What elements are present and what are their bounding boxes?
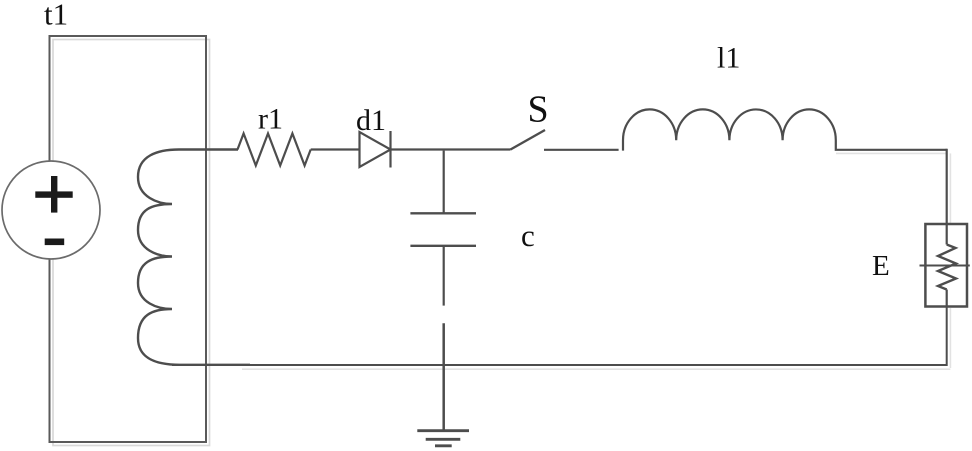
diode d1 <box>360 132 391 167</box>
ground bar 2 <box>426 438 461 441</box>
svg-text:t1: t1 <box>44 0 68 32</box>
capacitor c top plate <box>410 212 476 214</box>
wire cap to ground <box>442 323 445 431</box>
wire shadow (bottom wire) <box>242 368 950 370</box>
capacitor c bottom lead <box>443 246 445 306</box>
voltage source circle <box>2 161 100 259</box>
switch S blade <box>511 130 546 150</box>
resistor r1 <box>238 134 311 166</box>
voltage source minus sign <box>45 239 64 246</box>
wire shadow (right vertical upper) <box>949 153 951 224</box>
capacitor c top lead <box>443 151 445 213</box>
wire right vertical upper <box>946 149 948 225</box>
voltage source plus sign <box>35 191 72 197</box>
ground bar 1 <box>417 429 469 432</box>
load E resistor zigzag <box>938 245 956 290</box>
svg-text:c: c <box>521 218 535 253</box>
transformer t1 box shadow <box>53 40 210 446</box>
transformer t1 box <box>50 36 207 442</box>
load E inner lead top <box>946 224 948 245</box>
wire shadow (right vertical lower) <box>949 308 951 368</box>
svg-text:E: E <box>872 250 890 282</box>
load E middle crossing line <box>920 265 970 267</box>
svg-text:l1: l1 <box>717 42 740 75</box>
capacitor c bottom plate <box>410 245 476 247</box>
transformer secondary winding <box>138 150 250 365</box>
load E box <box>925 224 967 307</box>
svg-text:S: S <box>528 89 549 131</box>
wire resistor to diode <box>311 148 360 150</box>
inductor l1 <box>623 109 947 150</box>
load E inner lead bottom <box>946 290 948 308</box>
wire right vertical lower + bottom wire <box>172 307 947 366</box>
diode d1 cathode bar <box>389 131 391 168</box>
wire shadow (top right wire) <box>836 152 947 154</box>
svg-text:d1: d1 <box>356 104 386 137</box>
wire switch to inductor <box>544 149 619 151</box>
ground bar 3 <box>435 444 452 447</box>
wire diode to switch <box>391 148 511 150</box>
svg-text:r1: r1 <box>258 102 283 135</box>
